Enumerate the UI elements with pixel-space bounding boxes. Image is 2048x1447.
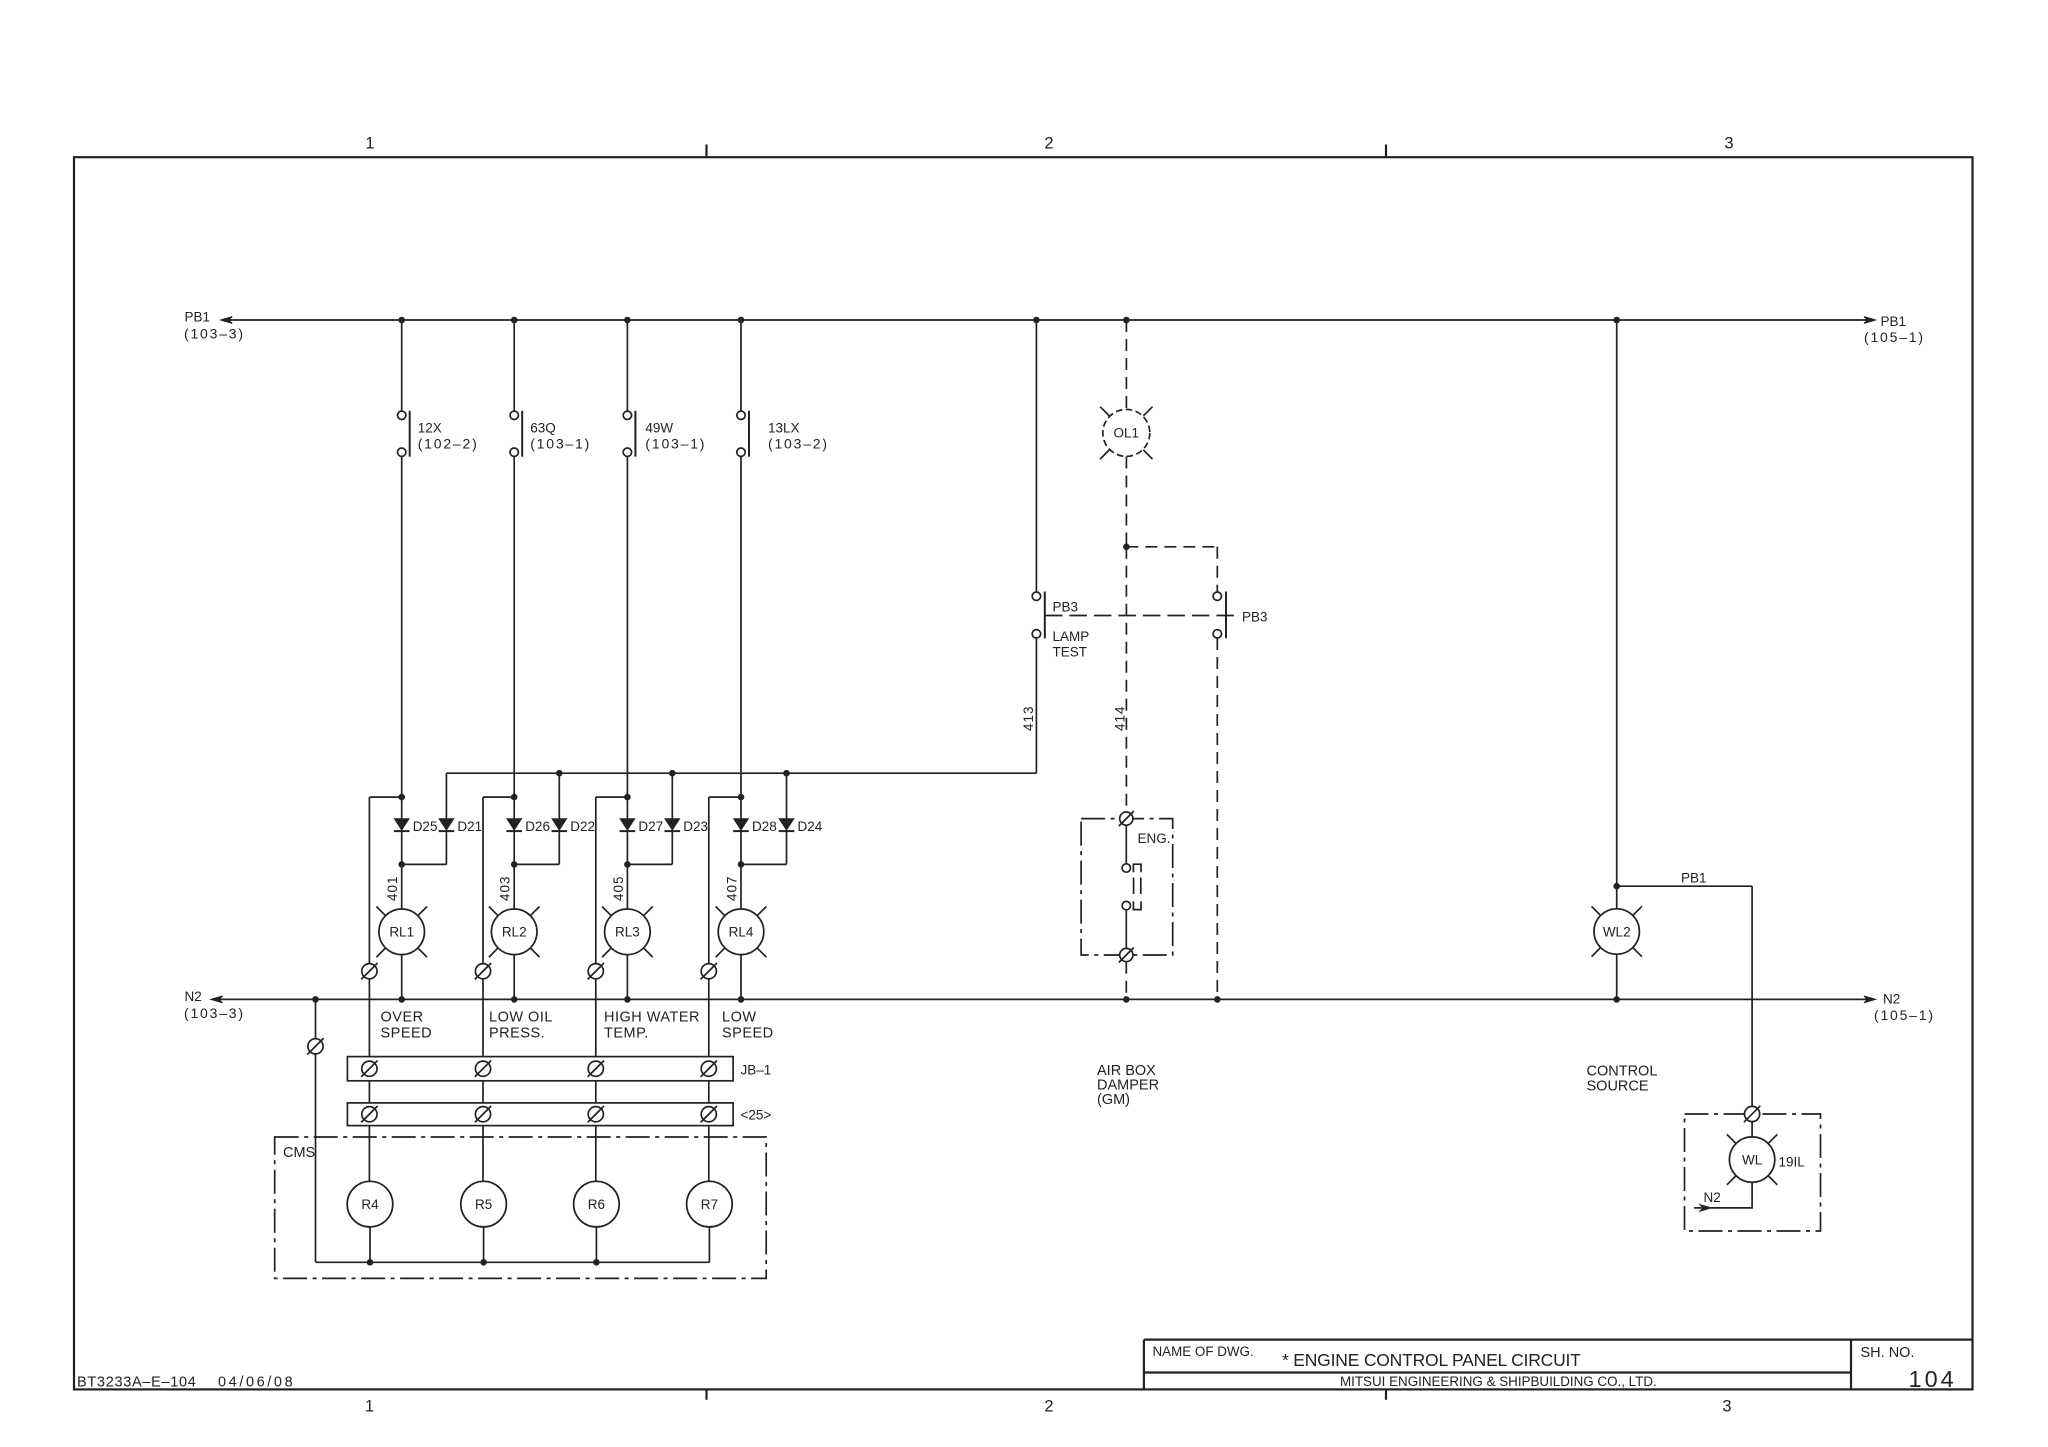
svg-text:MITSUI ENGINEERING & SHIPBUILD: MITSUI ENGINEERING & SHIPBUILDING CO., L… [1340,1374,1657,1389]
wire PB1 tap to 19IL [1617,886,1752,1106]
svg-text:TEST: TEST [1053,645,1088,660]
wire 413 contact to collector [1035,638,1037,773]
wire return tap at y797 [483,794,518,801]
svg-text:405: 405 [611,875,626,901]
diode D23 [665,819,709,834]
terminal on return wire 1 [361,963,377,979]
junction box JB-1 [347,1057,771,1081]
linkage PB3 dashed [1045,615,1237,617]
node N2 (103-3) label [184,989,245,1021]
svg-text:LOW OIL: LOW OIL [489,1010,553,1026]
junction 414/PB3 branch [1123,544,1130,551]
svg-text:3: 3 [1722,1398,1731,1416]
wire contact to lamp RL4 [740,456,742,909]
svg-text:LOW: LOW [722,1010,757,1026]
svg-text:R5: R5 [475,1197,492,1212]
wire diode D22 branch [511,773,559,868]
wire return tap at y797 [596,794,631,801]
contact 63Q (103–1) [510,411,591,457]
svg-text:401: 401 [385,875,400,901]
wire 413 horizontal collector [446,770,1036,777]
lamp RL3 [602,907,653,958]
svg-text:SPEED: SPEED [722,1026,774,1042]
svg-text:104: 104 [1909,1366,1957,1392]
svg-text:SPEED: SPEED [381,1026,433,1042]
contact 12X (102–2) [398,411,479,457]
svg-text:(103–2): (103–2) [768,436,829,452]
lamp WL2 [1592,906,1642,956]
svg-text:(103–3): (103–3) [184,326,245,342]
svg-text:2: 2 [1044,1398,1053,1416]
diode D21 [439,819,483,834]
svg-text:R7: R7 [701,1197,718,1212]
terminal on return wire 3 [588,963,604,979]
svg-text:(102–2): (102–2) [418,436,479,452]
junction PB1/413 [1033,317,1040,324]
diode D27 [620,819,664,834]
junction PB1/branch3 [624,317,631,324]
junction N2/lamp RL2 [511,996,518,1003]
svg-text:HIGH WATER: HIGH WATER [604,1010,700,1026]
wire WL to N2 arrow [1694,1182,1752,1211]
wire contact to lamp RL2 [513,456,515,909]
svg-text:13LX: 13LX [768,421,800,436]
wire dashed OL1 to junction [1125,457,1127,547]
terminal on CMS common wire [307,1038,323,1054]
junction WL2/PB1 tap [1613,883,1620,890]
svg-text:PB1: PB1 [1681,871,1707,886]
svg-text:407: 407 [725,875,740,901]
svg-text:D21: D21 [457,819,482,834]
svg-text:RL2: RL2 [502,925,527,940]
junction PB1/branch4 [738,317,745,324]
wire lamp RL2 to N2 [513,955,515,1000]
svg-text:PB3: PB3 [1053,600,1079,615]
resistor lamp R6 [574,1181,620,1227]
wire return tap at y797 [709,794,745,801]
node N2 (105-1) label [1874,992,1935,1024]
svg-text:D22: D22 [570,819,595,834]
wire dashed PB3 right to N2 [1216,638,1218,999]
svg-text:LAMP: LAMP [1053,629,1090,644]
junction N2/lamp RL3 [624,996,631,1003]
wire PB1 to contact 49W [626,320,628,411]
connector <25> [347,1103,771,1126]
node PB1 (103-3) label [184,310,245,342]
wire dashed 414 to ENG [1125,547,1127,812]
svg-text:SOURCE: SOURCE [1587,1079,1649,1095]
svg-text:WL2: WL2 [1603,924,1631,939]
svg-text:414: 414 [1113,705,1128,731]
wire R6 to rail [595,1227,597,1262]
terminal ENG bottom [1119,948,1134,963]
svg-text:R4: R4 [361,1197,379,1212]
wire return 596 down to CMS [595,797,597,1181]
wire diode D24 branch [738,773,787,868]
junction N2/WL2 [1613,996,1620,1003]
lamp RL4 [716,907,767,958]
svg-text:<25>: <25> [741,1108,772,1123]
wire lamp RL1 to N2 [401,955,403,1000]
wire lamp RL3 to N2 [626,955,628,1000]
wire return 483 down to CMS [482,797,484,1181]
svg-text:04/06/08: 04/06/08 [218,1374,295,1390]
terminal ENG top [1119,811,1134,826]
lamp RL1 [376,907,427,958]
diode D26 [506,819,550,834]
wire terminal to WL [1751,1122,1753,1137]
svg-text:N2: N2 [1704,1190,1721,1205]
resistor lamp R4 [347,1181,393,1227]
svg-text:RL1: RL1 [389,925,414,940]
svg-text:PB3: PB3 [1242,610,1268,625]
svg-text:(105–1): (105–1) [1864,329,1925,345]
diode D24 [779,819,823,834]
connector pin lower [1122,901,1141,909]
junction PB1/OL1 [1123,317,1130,324]
svg-text:403: 403 [498,875,513,901]
svg-text:12X: 12X [418,421,442,436]
svg-text:ENG.: ENG. [1138,831,1171,846]
wire PB1 bus [221,317,1876,324]
junction N2/ENG branch [1123,996,1130,1003]
junction PB1/branch1 [398,317,405,324]
svg-text:D27: D27 [638,819,663,834]
contact 13LX (103–2) [737,411,829,457]
svg-text:19IL: 19IL [1779,1155,1806,1170]
label HIGH WATER TEMP. [604,1010,700,1042]
wire CMS common from N2 [315,999,317,1262]
pushbutton PB3 (right) [1213,592,1267,639]
connector pin upper [1122,864,1141,873]
svg-text:D23: D23 [683,819,708,834]
wire R4 to rail [369,1227,371,1262]
svg-text:* ENGINE CONTROL PANEL CIRCUIT: * ENGINE CONTROL PANEL CIRCUIT [1282,1350,1581,1370]
junction N2/CMS common [312,996,319,1003]
box ENG (air box damper) [1081,819,1173,955]
svg-text:D24: D24 [798,819,823,834]
svg-text:(103–3): (103–3) [184,1005,245,1021]
svg-text:RL3: RL3 [615,925,640,940]
lamp WL 19IL [1727,1134,1805,1184]
wire dashed junction to PB3 right [1126,547,1217,592]
node PB1 (105-1) label [1864,314,1925,345]
svg-text:SH. NO.: SH. NO. [1861,1345,1915,1361]
svg-text:D26: D26 [525,819,550,834]
label LOW OIL PRESS. [489,1010,553,1042]
wire 413 from PB1 to PB3 contact [1035,320,1037,592]
wire PB1 to contact 12X [401,320,403,411]
wire dashed PB1 to OL1 [1125,320,1127,409]
wire PB1 to WL2 [1616,320,1618,909]
svg-text:PRESS.: PRESS. [489,1026,545,1042]
svg-text:1: 1 [365,1398,374,1416]
lamp OL1 [1100,407,1152,459]
svg-text:OVER: OVER [381,1010,424,1026]
svg-text:1: 1 [365,135,374,153]
wire contact to lamp RL1 [401,456,403,909]
contact 49W (103–1) [623,411,706,457]
svg-text:N2: N2 [185,989,202,1004]
junction N2/lamp RL1 [398,996,405,1003]
terminal on return wire 4 [701,963,717,979]
drawing number and date [77,1374,295,1390]
box CMS [275,1137,767,1278]
wire dashed ENG to N2 [1125,962,1127,1000]
svg-text:PB1: PB1 [185,310,211,325]
wire return 709 down to CMS [708,797,710,1181]
lamp RL2 [489,907,540,958]
diode D25 [394,819,438,834]
wire R7 to rail [708,1227,710,1262]
svg-text:63Q: 63Q [530,421,556,436]
svg-text:NAME OF DWG.: NAME OF DWG. [1153,1344,1254,1359]
wire WL2 to N2 [1616,954,1618,999]
svg-text:RL4: RL4 [729,925,754,940]
svg-text:413: 413 [1021,705,1036,731]
connector coupling lines [1134,878,1141,895]
junction N2/lamp RL4 [738,996,745,1003]
wire CMS bottom rail [316,1259,710,1266]
title block [1144,1340,1973,1392]
svg-text:49W: 49W [645,421,673,436]
svg-text:CONTROL: CONTROL [1587,1064,1658,1080]
svg-text:(103–1): (103–1) [645,436,706,452]
wire pin to ENG bottom terminal [1125,910,1127,949]
wire diode D23 branch [624,773,672,868]
svg-text:PB1: PB1 [1881,314,1907,329]
resistor lamp R7 [687,1181,733,1227]
svg-text:JB–1: JB–1 [741,1063,772,1078]
wire return 369 down to CMS [368,797,370,1181]
wire return tap at y797 [369,794,405,801]
resistor lamp R5 [461,1181,507,1227]
diode D22 [552,819,596,834]
svg-text:N2: N2 [1883,992,1900,1007]
svg-text:3: 3 [1724,135,1733,153]
svg-text:D25: D25 [413,819,438,834]
label CONTROL SOURCE [1587,1064,1658,1095]
svg-text:(GM): (GM) [1097,1092,1130,1108]
svg-text:2: 2 [1044,135,1053,153]
wire diode D21 branch [398,773,446,868]
wire ENG top terminal to pin [1125,825,1127,863]
svg-text:(103–1): (103–1) [530,436,591,452]
svg-text:R6: R6 [588,1197,605,1212]
svg-text:D28: D28 [752,819,777,834]
svg-text:BT3233A–E–104: BT3233A–E–104 [77,1374,197,1390]
svg-text:CMS: CMS [283,1145,315,1161]
wire PB1 to contact 63Q [513,320,515,411]
box 19IL [1685,1114,1821,1231]
diode D28 [733,819,777,834]
label LOW SPEED [722,1010,774,1042]
wire N2 bus [211,996,1876,1003]
junction PB1/WL2 [1613,317,1620,324]
junction N2/PB3 branch [1214,996,1221,1003]
pushbutton PB3 lamp test (left) [1032,592,1089,660]
terminal 19IL top [1744,1106,1760,1122]
wire PB1 to contact 13LX [740,320,742,411]
svg-text:TEMP.: TEMP. [604,1026,649,1042]
svg-text:OL1: OL1 [1114,426,1140,441]
svg-text:(105–1): (105–1) [1874,1007,1935,1023]
junction PB1/branch2 [511,317,518,324]
wire contact to lamp RL3 [626,456,628,909]
terminal on return wire 2 [475,963,491,979]
wire lamp RL4 to N2 [740,955,742,1000]
label OVER SPEED [381,1010,433,1042]
svg-text:WL: WL [1742,1152,1763,1167]
wire R5 to rail [483,1227,485,1262]
label AIR BOX DAMPER (GM) [1097,1063,1159,1108]
